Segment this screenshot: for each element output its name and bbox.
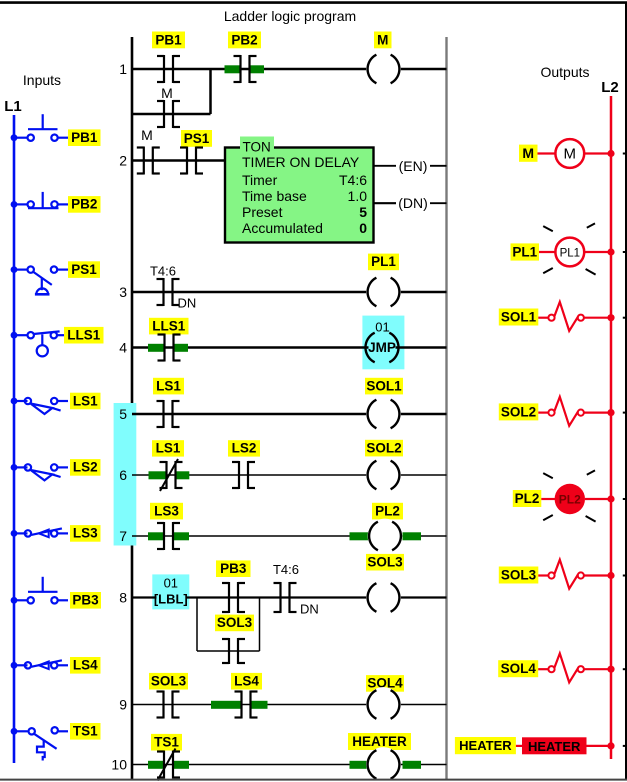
label PL2 output (513, 490, 542, 507)
svg-text:1.0: 1.0 (348, 188, 368, 204)
wire branch left rung 8 (196, 598, 198, 652)
contact LLS1 rung 4 (158, 334, 181, 362)
svg-text:(EN): (EN) (399, 158, 428, 174)
svg-text:T4:6: T4:6 (339, 172, 367, 188)
timer value 5 (359, 204, 367, 220)
label SOL4 rung 9 (366, 675, 404, 692)
rung number 4 (119, 340, 127, 356)
coil HEATER rung 10 (366, 747, 401, 782)
svg-text:M: M (522, 145, 534, 161)
pressure switch PS1 (11, 266, 68, 294)
output EN (399, 158, 428, 174)
svg-text:JMP: JMP (368, 340, 396, 355)
wire rung 2 (132, 159, 225, 162)
label HEATER output (455, 737, 516, 754)
wire rung 1 (132, 68, 447, 71)
label PL2 rung 7 (372, 503, 403, 520)
svg-text:HEATER: HEATER (352, 734, 407, 749)
svg-text:HEATER: HEATER (528, 739, 581, 754)
svg-text:SOL3: SOL3 (501, 568, 537, 583)
label LS4 rung 9 (231, 673, 262, 690)
highlight TS1 left (148, 761, 164, 769)
svg-text:Ladder logic program: Ladder logic program (224, 8, 356, 24)
svg-text:PL1: PL1 (371, 254, 396, 269)
svg-text:T4:6: T4:6 (150, 264, 176, 279)
label DN rung 8 (300, 602, 319, 617)
svg-text:[LBL]: [LBL] (154, 591, 188, 606)
rung number 9 (119, 697, 127, 713)
svg-text:10: 10 (111, 757, 127, 773)
ladder left rail (131, 37, 134, 779)
label L1 (4, 98, 22, 115)
svg-text:PL1: PL1 (560, 248, 580, 260)
timer value T4:6 (339, 172, 367, 188)
highlight LS3 right (174, 532, 190, 540)
wire PL2 to rail (585, 498, 611, 500)
output DN (398, 195, 428, 211)
tick SOL2 (623, 412, 627, 414)
label LS1 input (70, 393, 101, 410)
rung number 8 (119, 590, 127, 606)
label LS2 rung 6 (228, 440, 260, 456)
svg-text:LS4: LS4 (73, 658, 98, 673)
svg-text:PB1: PB1 (71, 130, 98, 145)
svg-text:M: M (141, 127, 153, 143)
lamp PL2 (on) (555, 484, 585, 514)
junction SOL3 (607, 572, 614, 579)
svg-text:PB3: PB3 (72, 593, 99, 608)
svg-text:M: M (564, 146, 577, 163)
label TS1 rung 10 (151, 734, 182, 751)
contact LS3 rung 7 (157, 522, 180, 550)
svg-text:L2: L2 (601, 79, 619, 96)
coil SOL3 rung 8 (366, 580, 401, 615)
label LS3 rung 7 (150, 503, 183, 520)
border right (625, 2, 627, 781)
limit switch LS4 (NC) (11, 660, 68, 669)
timer text Accumulated (242, 220, 323, 236)
wire branch vertical rung 1 (209, 69, 212, 114)
label PL1 output (511, 243, 540, 260)
svg-text:PL2: PL2 (375, 503, 400, 518)
rays PL1 (543, 223, 595, 274)
jump JMP coil (365, 333, 398, 363)
wire branch bottom rung 8 (197, 650, 260, 652)
tick SOL3 (623, 575, 627, 577)
svg-text:PB2: PB2 (71, 197, 97, 212)
highlight PL2 coil right (403, 532, 422, 540)
tick HEATER (623, 745, 627, 747)
contact PB3 rung 8 (222, 582, 245, 613)
label SOL3 coil rung 8 (366, 554, 404, 571)
svg-text:0: 0 (359, 220, 367, 236)
wire rung 9 (132, 704, 447, 706)
svg-text:SOL3: SOL3 (217, 615, 253, 630)
highlight HEATER coil left (350, 761, 369, 769)
svg-text:01: 01 (375, 320, 389, 335)
label PB2 input (68, 196, 101, 213)
svg-text:PB2: PB2 (231, 32, 257, 47)
wire SOL3 output (538, 574, 548, 576)
svg-text:PL1: PL1 (512, 245, 537, 260)
heading Inputs (23, 72, 61, 88)
pushbutton PB2 (NC) (11, 192, 68, 208)
junction SOL2 (607, 409, 614, 416)
svg-text:LS1: LS1 (156, 441, 181, 456)
svg-text:Timer: Timer (242, 172, 278, 188)
svg-text:SOL1: SOL1 (366, 378, 402, 393)
coil SOL1 rung 5 (366, 397, 401, 432)
solenoid SOL1 (548, 302, 611, 331)
coil SOL4 rung 9 (366, 687, 401, 722)
contact PB1 rung 1 (157, 55, 180, 83)
junction PL2 (607, 495, 614, 502)
wire rung 7 (132, 535, 447, 537)
label T4:6 rung 3 (150, 264, 176, 279)
solenoid SOL2 (548, 397, 611, 426)
svg-text:(DN): (DN) (398, 195, 428, 211)
contact PB2 rung 1 (234, 55, 257, 83)
svg-text:Inputs: Inputs (23, 72, 61, 88)
jump JMP text (368, 340, 396, 355)
svg-text:9: 9 (119, 697, 127, 713)
rung number 6 (119, 467, 127, 483)
label SOL1 output (499, 309, 539, 326)
highlight LLS1 left (148, 344, 165, 352)
tick PL1 (623, 251, 627, 253)
rung number 3 (119, 284, 127, 300)
limit switch LS3 (NC) (11, 528, 68, 537)
label M rung 2 (141, 127, 153, 143)
wire rung 10 (132, 764, 447, 766)
svg-text:T4:6: T4:6 (273, 562, 299, 577)
rays PL2 (543, 470, 595, 521)
svg-text:LS2: LS2 (73, 460, 98, 475)
label HEATER rung 10 (348, 733, 411, 750)
solenoid SOL3 (548, 560, 611, 589)
label SOL3 rung 9 (149, 673, 188, 690)
svg-text:TS1: TS1 (73, 724, 98, 739)
label M coil rung 1 (374, 32, 392, 49)
svg-text:SOL4: SOL4 (501, 661, 537, 676)
timer text Preset (242, 204, 283, 220)
solenoid SOL4 (548, 653, 611, 682)
tick M (623, 153, 627, 155)
rung number 5 (119, 406, 127, 422)
label DN rung 3 (178, 296, 197, 311)
svg-text:LS4: LS4 (234, 674, 259, 689)
svg-text:6: 6 (119, 467, 127, 483)
jump label LBL backdrop (157, 591, 186, 604)
label LS4 input (70, 657, 101, 674)
contact LS1 NC rung 6 (160, 459, 183, 491)
timer text Time base (242, 188, 307, 204)
svg-text:PS1: PS1 (71, 262, 97, 277)
svg-text:Time base: Time base (242, 188, 307, 204)
svg-text:TIMER ON DELAY: TIMER ON DELAY (242, 154, 360, 170)
timer TON tab (240, 137, 274, 155)
wire PL2 output (541, 498, 555, 500)
lamp PL1 (555, 238, 584, 267)
contact M rung 2 (137, 147, 160, 175)
wire PL1 to rail (584, 251, 611, 253)
svg-text:LS1: LS1 (73, 393, 98, 408)
rung number 2 (119, 153, 127, 169)
label PB3 input (70, 592, 101, 609)
wire HEATER to rail (587, 745, 612, 747)
label SOL1 rung 5 (365, 378, 403, 395)
highlight bar rungs 5-7 (114, 403, 137, 546)
contact SOL3 branch rung 8 (222, 638, 245, 664)
junction M (607, 150, 614, 157)
tick SOL1 (623, 317, 627, 319)
junction SOL4 (607, 666, 614, 673)
svg-text:LS1: LS1 (156, 378, 181, 393)
highlight LS1 NC left (149, 471, 167, 479)
highlight LLS1 right (174, 344, 189, 352)
svg-text:M: M (377, 32, 388, 47)
wire EN right (430, 165, 447, 167)
contact LS2 rung 6 (232, 461, 255, 489)
title (224, 8, 356, 24)
svg-text:SOL3: SOL3 (151, 674, 187, 689)
jump label LBL text (154, 591, 188, 606)
coil PL2 rung 7 (368, 519, 403, 554)
svg-text:3: 3 (119, 284, 127, 300)
svg-text:M: M (161, 85, 173, 101)
border bottom (0, 779, 627, 781)
wire rung 4 (132, 346, 447, 349)
coil SOL2 rung 6 (366, 458, 401, 493)
svg-text:7: 7 (119, 528, 127, 544)
svg-text:L1: L1 (4, 98, 22, 115)
rung number 1 (119, 61, 127, 77)
wire HEATER label (516, 745, 522, 747)
wire EN left (374, 165, 397, 167)
wire DN left (374, 202, 397, 204)
label M output (519, 145, 538, 162)
highlight LS3 left (148, 532, 164, 540)
pushbutton PB3 (NO) (11, 577, 68, 604)
svg-text:8: 8 (119, 590, 127, 606)
junction PL1 (607, 248, 614, 255)
highlight LS4 left (211, 701, 241, 709)
svg-text:PB1: PB1 (155, 32, 182, 47)
timer value 0 (359, 220, 367, 236)
wire DN right (430, 202, 447, 204)
svg-text:DN: DN (178, 296, 197, 311)
svg-text:PB3: PB3 (220, 561, 247, 576)
svg-text:Preset: Preset (242, 204, 283, 220)
svg-text:1: 1 (119, 61, 127, 77)
svg-text:HEATER: HEATER (459, 738, 512, 753)
label PB1 rung 1 (152, 32, 185, 49)
highlight PB2 right (249, 65, 264, 73)
label LS1 rung 5 (153, 378, 184, 395)
highlight HEATER coil right (403, 761, 422, 769)
svg-text:Accumulated: Accumulated (242, 220, 323, 236)
coil PL1 rung 3 (366, 275, 401, 310)
svg-text:4: 4 (119, 340, 127, 356)
label TS1 input (70, 723, 101, 740)
svg-text:LS3: LS3 (73, 526, 98, 541)
label LLS1 input (64, 327, 104, 344)
temperature switch TS1 (11, 727, 68, 760)
jump label LBL box (152, 574, 189, 609)
svg-text:2: 2 (119, 153, 127, 169)
wire M output (538, 152, 556, 154)
wire rung 5 (132, 413, 447, 416)
timer text TIMER ON DELAY (242, 154, 360, 170)
rail L1 (blue) (13, 115, 16, 763)
wire rung 3 (132, 291, 447, 294)
wire branch right rung 8 (259, 598, 261, 652)
label SOL3 branch rung 8 (215, 615, 254, 632)
label PB2 rung 1 (228, 32, 261, 49)
label LS3 input (70, 525, 101, 542)
label LS1 rung 6 (152, 440, 184, 456)
svg-text:LS2: LS2 (232, 441, 257, 456)
wire M to rail (584, 152, 611, 154)
level switch LLS1 (11, 331, 68, 356)
junction HEATER (607, 742, 614, 749)
highlight PL2 coil left (350, 532, 369, 540)
svg-text:DN: DN (300, 602, 319, 617)
contact TS1 NC rung 10 (157, 749, 180, 781)
coil M rung 1 (366, 52, 401, 87)
svg-text:PS1: PS1 (184, 131, 210, 146)
svg-text:LLS1: LLS1 (152, 318, 185, 333)
junction SOL1 (607, 314, 614, 321)
svg-text:Outputs: Outputs (540, 64, 589, 80)
border top (0, 1, 627, 4)
label PL1 rung 3 (368, 254, 399, 271)
timer TON box (225, 148, 374, 243)
svg-text:5: 5 (119, 406, 127, 422)
jump JMP box (362, 316, 404, 370)
label PB3 rung 8 (216, 560, 251, 577)
wire SOL4 output (538, 668, 548, 670)
motor M (555, 139, 584, 168)
contact PS1 rung 2 (180, 147, 203, 175)
wire branch M (132, 113, 211, 116)
rung number 7 (119, 528, 127, 544)
ladder right rail (445, 37, 447, 779)
contact T4:6 rung 8 (274, 582, 297, 613)
svg-text:SOL3: SOL3 (367, 555, 403, 570)
jump 01 text (375, 320, 389, 335)
svg-text:SOL1: SOL1 (501, 310, 537, 325)
svg-text:SOL2: SOL2 (501, 404, 536, 419)
svg-text:SOL2: SOL2 (366, 440, 401, 455)
heading Outputs (540, 64, 589, 80)
wire SOL1 output (538, 317, 548, 319)
timer value 1.0 (348, 188, 368, 204)
tick SOL4 (623, 668, 627, 670)
highlight PB2 left (225, 65, 241, 73)
label LS2 input (70, 459, 101, 476)
label PB1 input (68, 129, 101, 146)
label PS1 input (68, 261, 100, 278)
contact LS1 rung 5 (157, 400, 180, 428)
contact LS4 rung 9 (235, 691, 258, 719)
contact T4:6 DN rung 3 (157, 278, 180, 306)
jump label 01 text (164, 575, 178, 590)
svg-text:TON: TON (243, 140, 271, 155)
label SOL3 output (499, 567, 539, 584)
label PS1 rung 2 (181, 130, 212, 147)
jump JMP text backdrop (369, 341, 396, 354)
svg-text:LS3: LS3 (154, 503, 179, 518)
contact M branch (157, 100, 180, 128)
rail L2 (red) (610, 96, 613, 759)
label SOL4 output (498, 660, 538, 677)
label L2 (601, 79, 619, 96)
pushbutton PB1 (NO) (11, 114, 68, 141)
tick PL2 (623, 498, 627, 500)
highlight TS1 right (174, 761, 190, 769)
svg-text:5: 5 (359, 204, 367, 220)
label SOL2 rung 6 (365, 440, 403, 457)
heater HEATER box (522, 737, 587, 754)
limit switch LS2 (NO) (11, 464, 68, 480)
highlight LS1 NC right (176, 471, 190, 479)
wire rung 6 (132, 474, 447, 476)
wire rung 8 (132, 596, 447, 598)
svg-text:01: 01 (164, 575, 178, 590)
label SOL2 output (499, 403, 539, 420)
limit switch LS1 (NO) (11, 398, 68, 414)
svg-text:PL2: PL2 (515, 491, 540, 506)
label M branch contact (161, 85, 173, 101)
rung number 10 (111, 757, 127, 773)
label T4:6 rung 8 (273, 562, 299, 577)
highlight LS4 right (251, 701, 268, 709)
svg-text:LLS1: LLS1 (67, 328, 100, 343)
timer text Timer (242, 172, 278, 188)
svg-text:TS1: TS1 (154, 735, 179, 750)
contact SOL3 rung 9 (157, 691, 180, 719)
wire SOL2 output (538, 412, 548, 414)
svg-text:PL2: PL2 (559, 493, 581, 507)
label LLS1 rung 4 (149, 318, 189, 335)
wire PL1 output (539, 251, 555, 253)
